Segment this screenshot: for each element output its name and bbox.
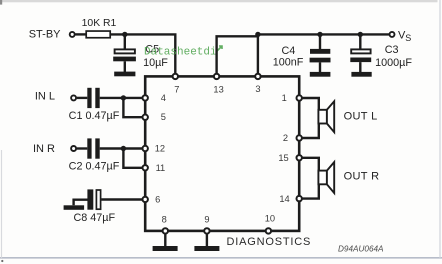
svg-text:Datasheetdi: Datasheetdi: [144, 47, 217, 59]
svg-text:8: 8: [162, 214, 167, 224]
ground below C4: [310, 72, 331, 77]
svg-text:C2 0.47µF: C2 0.47µF: [69, 161, 120, 173]
svg-text:11: 11: [156, 163, 166, 173]
ground below C3: [351, 72, 371, 77]
pin 4: [143, 93, 166, 103]
svg-text:3: 3: [255, 84, 260, 94]
pin 6: [143, 195, 161, 205]
wire C8 to pin6: [101, 198, 142, 200]
wire main top rail to VS: [258, 33, 389, 35]
terminal ST-BY: [70, 32, 75, 37]
node junction C1: [121, 95, 126, 100]
page rule bottom: [0, 257, 442, 259]
value label C4: [273, 45, 304, 69]
ground below pin8: [153, 246, 178, 251]
svg-text:OUT L: OUT L: [344, 111, 378, 123]
watermark Datasheetdir: [144, 46, 222, 59]
wire C1 to pin4: [100, 97, 142, 99]
pin 5: [143, 112, 166, 122]
label VS: [398, 30, 411, 44]
wire pin1 to speaker L: [302, 97, 320, 99]
svg-text:15: 15: [278, 153, 288, 163]
label drawing number D94AU064A: [338, 245, 384, 254]
wire junction to pin11: [123, 150, 142, 168]
pin 8: [162, 214, 168, 233]
svg-text:7: 7: [174, 84, 179, 94]
wire pin9 to ground: [206, 234, 208, 246]
pin 10: [265, 213, 275, 233]
svg-text:6: 6: [155, 195, 160, 205]
op-amp IC U1 body: [145, 76, 299, 231]
wire pin2 to speaker L: [302, 137, 320, 139]
speck bottom-left: [1, 260, 3, 262]
capacitor C8: [87, 189, 100, 209]
svg-text:13: 13: [213, 84, 223, 94]
svg-text:10: 10: [265, 213, 275, 223]
svg-text:OUT R: OUT R: [344, 171, 380, 183]
node junction R1/C5: [122, 32, 127, 37]
speaker OUT R: [318, 158, 334, 199]
value label C5: [143, 44, 168, 70]
page rule top: [0, 0, 438, 5]
wire ground to C8: [74, 200, 88, 206]
svg-text:C4: C4: [281, 45, 295, 57]
pin 2: [283, 133, 302, 143]
terminal IN R: [71, 146, 76, 151]
svg-text:DIAGNOSTICS: DIAGNOSTICS: [227, 236, 312, 248]
pin 14: [279, 194, 302, 204]
node junction C4: [317, 32, 322, 37]
label OUT R: [344, 171, 380, 183]
node junction C2: [121, 146, 126, 151]
svg-text:10µF: 10µF: [143, 57, 168, 69]
wire pin14 to speaker R: [302, 197, 320, 199]
wire junction to pin5: [123, 99, 142, 117]
node junction pin3: [255, 32, 260, 37]
svg-text:10K R1: 10K R1: [82, 18, 117, 29]
svg-text:C8 47µF: C8 47µF: [73, 212, 115, 224]
page rule left: [1, 150, 3, 258]
svg-text:C3: C3: [385, 44, 399, 56]
svg-text:2: 2: [283, 133, 288, 143]
page rule right: [439, 0, 441, 258]
ground C8: [64, 205, 85, 210]
svg-text:IN R: IN R: [33, 143, 55, 155]
svg-text:100nF: 100nF: [273, 57, 304, 69]
wire ST-BY terminal to R1: [75, 33, 87, 35]
ground below C5: [114, 72, 135, 77]
value label C1: [69, 110, 120, 122]
speaker OUT L: [318, 98, 334, 138]
svg-text:1: 1: [282, 93, 287, 103]
label DIAGNOSTICS: [227, 236, 312, 248]
value label C3: [375, 44, 412, 69]
svg-text:4: 4: [161, 93, 166, 103]
svg-text:IN L: IN L: [35, 91, 55, 103]
value label C2: [69, 161, 120, 173]
wire pin3 stub: [257, 34, 259, 73]
wire pin8 to ground: [164, 234, 166, 246]
svg-text:9: 9: [204, 214, 209, 224]
wire pin15 to speaker R: [302, 157, 320, 159]
resistor R1: [82, 18, 117, 38]
wire IN R to C2: [77, 147, 88, 149]
svg-text:5: 5: [161, 112, 166, 122]
capacitor C5: [113, 34, 136, 72]
svg-text:12: 12: [155, 144, 165, 154]
svg-text:1000µF: 1000µF: [375, 57, 412, 69]
wire C2 to pin12: [100, 147, 142, 149]
label IN R: [33, 143, 55, 155]
label IN L: [35, 91, 55, 103]
pin 1: [282, 93, 302, 103]
wire R1 to pin7 elbow: [110, 34, 175, 73]
pin 12: [143, 144, 166, 154]
label ST-BY: [29, 29, 61, 41]
pin 7: [173, 74, 180, 95]
capacitor C4: [310, 34, 331, 72]
terminal IN L: [71, 95, 76, 100]
svg-text:ST-BY: ST-BY: [29, 29, 61, 41]
capacitor C3: [350, 34, 371, 72]
pin 9: [204, 214, 209, 233]
pin 15: [278, 153, 302, 163]
node junction C3: [358, 32, 363, 37]
ground below pin9: [194, 246, 219, 251]
value label C8: [73, 212, 115, 224]
wire pin13 elbow to pin3 stub: [217, 36, 258, 73]
capacitor C2: [87, 138, 99, 158]
svg-text:14: 14: [279, 194, 289, 204]
wire IN L to C1: [77, 97, 88, 99]
capacitor C1: [87, 88, 99, 108]
svg-text:C1 0.47µF: C1 0.47µF: [69, 110, 120, 122]
pin 11: [143, 163, 166, 173]
svg-text:S: S: [405, 33, 411, 43]
pin 3: [255, 74, 260, 94]
label OUT L: [344, 111, 378, 123]
pin 13: [213, 74, 223, 95]
terminal VS: [390, 32, 395, 37]
svg-text:D94AU064A: D94AU064A: [338, 245, 384, 254]
